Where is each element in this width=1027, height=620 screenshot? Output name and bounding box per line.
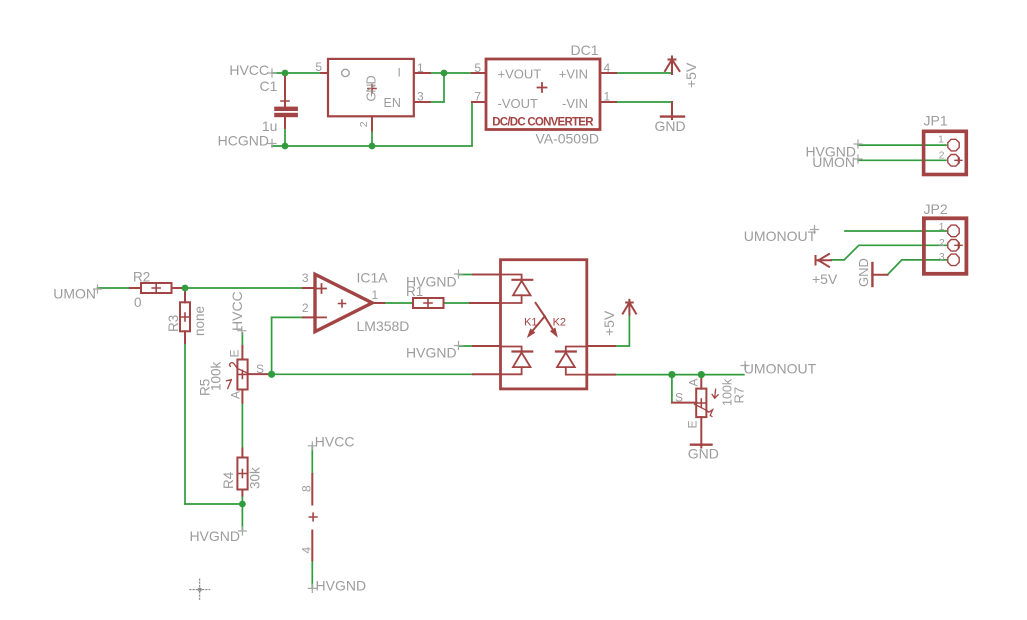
svg-text:HVGND: HVGND [189,528,240,544]
svg-text:2: 2 [302,301,309,315]
svg-text:UMON: UMON [812,154,855,170]
svg-text:1: 1 [417,61,424,75]
svg-text:8: 8 [300,485,314,492]
svg-text:4: 4 [300,547,314,554]
svg-text:1: 1 [604,90,611,104]
svg-text:+5V: +5V [812,271,838,287]
svg-text:S: S [256,362,264,376]
svg-text:JP1: JP1 [924,113,948,129]
svg-text:HVCC: HVCC [229,291,245,331]
svg-text:E: E [228,349,242,357]
svg-text:none: none [192,306,207,336]
svg-text:4: 4 [604,61,611,75]
svg-text:+5V: +5V [601,310,617,336]
svg-text:K2: K2 [553,317,566,329]
svg-text:HVGND: HVGND [406,345,457,361]
svg-text:A: A [229,391,243,399]
svg-text:S: S [675,391,683,405]
svg-text:UMONOUT: UMONOUT [744,228,817,244]
svg-text:A: A [687,378,701,386]
svg-text:E: E [686,420,700,428]
svg-text:5: 5 [474,61,481,75]
svg-text:+VOUT: +VOUT [498,67,542,82]
svg-text:2: 2 [939,237,945,249]
svg-text:100k: 100k [209,361,224,391]
svg-text:3: 3 [417,90,424,104]
svg-text:+5V: +5V [683,62,699,88]
svg-text:I: I [398,65,401,79]
svg-text:DC/DC CONVERTER: DC/DC CONVERTER [492,117,594,129]
svg-text:HVCC: HVCC [229,62,269,78]
svg-text:0: 0 [134,295,142,310]
svg-text:5: 5 [315,60,322,74]
svg-text:K1: K1 [524,317,537,329]
svg-text:EN: EN [384,96,401,110]
svg-text:1: 1 [938,133,944,145]
svg-text:UMONOUT: UMONOUT [744,361,817,377]
svg-text:VA-0509D: VA-0509D [535,131,599,147]
svg-text:GND: GND [856,258,871,287]
svg-text:2: 2 [939,149,945,161]
svg-text:2: 2 [358,121,370,127]
svg-text:HVGND: HVGND [406,274,457,290]
svg-text:R4: R4 [221,471,236,489]
svg-text:30k: 30k [248,467,263,489]
svg-text:-VOUT: -VOUT [498,96,539,111]
svg-text:R7: R7 [732,387,747,404]
svg-text:1: 1 [939,221,945,233]
svg-text:LM358D: LM358D [357,318,410,334]
svg-text:IC1A: IC1A [357,270,389,286]
svg-text:DC1: DC1 [570,42,598,58]
svg-text:3: 3 [302,271,309,285]
svg-text:7: 7 [474,90,481,104]
svg-text:GND: GND [688,446,719,462]
svg-text:C1: C1 [259,78,277,94]
svg-text:+VIN: +VIN [559,67,588,82]
svg-text:1: 1 [372,288,379,302]
svg-text:UMON: UMON [53,286,96,302]
svg-text:HCGND: HCGND [218,133,269,149]
svg-text:GND: GND [365,75,379,101]
svg-text:JP2: JP2 [924,201,948,217]
svg-text:HVCC: HVCC [315,434,355,450]
svg-text:3: 3 [939,251,945,263]
svg-text:R3: R3 [166,315,181,332]
svg-text:-VIN: -VIN [562,96,588,111]
svg-text:HVGND: HVGND [316,578,367,594]
svg-text:R2: R2 [133,270,150,285]
svg-text:GND: GND [654,118,685,134]
